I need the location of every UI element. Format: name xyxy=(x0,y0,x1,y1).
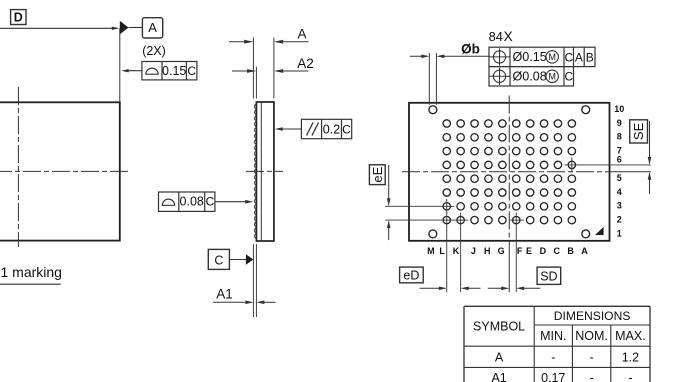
svg-text:SD: SD xyxy=(540,269,557,283)
svg-text:0.15: 0.15 xyxy=(162,64,186,78)
svg-text:C: C xyxy=(564,50,573,64)
leader arrow from 0.2 frame to body edge xyxy=(275,127,302,131)
SD label box xyxy=(537,267,561,284)
svg-text:C: C xyxy=(564,70,573,84)
svg-text:0.2: 0.2 xyxy=(323,123,340,137)
svg-text:C: C xyxy=(187,64,196,78)
svg-text:C: C xyxy=(554,246,561,256)
datum C box xyxy=(208,249,229,269)
svg-text:C: C xyxy=(206,195,215,209)
seating plane extension lines below xyxy=(253,244,256,317)
side view body outline xyxy=(256,102,274,241)
BGA vertical centerline xyxy=(508,96,510,293)
datum C leader with filled triangle xyxy=(229,254,253,265)
datum target filled triangle at A xyxy=(120,21,143,35)
svg-text:1.2: 1.2 xyxy=(622,350,639,364)
svg-text:7: 7 xyxy=(617,146,622,156)
Øb extension lines over ball M10 xyxy=(429,53,436,105)
svg-text:A1: A1 xyxy=(216,287,233,302)
svg-text:C: C xyxy=(214,253,223,267)
BGA bottom view package outline xyxy=(409,103,610,241)
crossed ball L3 with eE extension xyxy=(385,199,454,214)
svg-text:SYMBOL: SYMBOL xyxy=(473,320,525,334)
svg-text:eE: eE xyxy=(370,166,385,182)
svg-text:Øb: Øb xyxy=(461,42,480,57)
eD label box xyxy=(400,267,424,283)
table subheaders MIN NOM MAX xyxy=(540,329,646,343)
svg-text:4: 4 xyxy=(617,187,622,197)
table header DIMENSIONS xyxy=(554,309,631,323)
svg-text:9: 9 xyxy=(617,118,622,128)
84X count label xyxy=(489,29,513,44)
svg-text:A: A xyxy=(495,350,504,364)
datum D box xyxy=(11,10,26,25)
svg-text:1: 1 xyxy=(617,228,622,238)
svg-text:E: E xyxy=(526,246,532,256)
svg-text:SE: SE xyxy=(631,122,646,140)
svg-text:B: B xyxy=(567,246,574,256)
svg-text:A: A xyxy=(297,26,306,41)
crossed ball B6 with SE extension xyxy=(564,157,650,172)
position tolerance frame 0.08 M C xyxy=(489,67,574,86)
svg-text:G: G xyxy=(498,246,505,256)
label (2X) xyxy=(142,44,166,58)
svg-text:(2X): (2X) xyxy=(142,44,166,58)
crossed ball L2 with eE and eD extensions xyxy=(385,213,454,293)
position tolerance frame 0.15 M C A B xyxy=(489,47,595,66)
dimensions table grid xyxy=(464,306,650,382)
svg-text:NOM.: NOM. xyxy=(575,329,608,343)
Øb dimension arrows xyxy=(410,55,489,59)
leader arrow from 0.08 frame to ball edge xyxy=(215,200,253,204)
svg-text:K: K xyxy=(453,246,460,256)
SD dimension arrows xyxy=(488,287,541,291)
svg-text:M: M xyxy=(427,246,435,256)
parallelism tolerance frame 0.2 C xyxy=(301,119,351,138)
eE label box xyxy=(369,165,385,185)
dimension A extension lines xyxy=(253,38,274,99)
svg-text:X: X xyxy=(504,29,513,44)
side view solder ball zigzag edge xyxy=(254,104,256,240)
svg-text:-: - xyxy=(590,371,594,382)
svg-text:A: A xyxy=(575,50,583,64)
svg-text:-: - xyxy=(590,350,594,364)
svg-text:6: 6 xyxy=(617,155,622,165)
svg-text:H: H xyxy=(484,246,491,256)
pin 1 marking note xyxy=(0,264,62,284)
svg-text:F: F xyxy=(517,246,523,256)
svg-text:M: M xyxy=(548,52,556,62)
dimension A2 xyxy=(232,56,314,73)
ball A1 index corner triangle xyxy=(595,227,604,235)
svg-text:L: L xyxy=(439,246,445,256)
svg-text:MIN.: MIN. xyxy=(540,329,566,343)
Øb label xyxy=(461,42,480,57)
eE dimension line xyxy=(387,165,391,240)
crossed ball K2 with eD extension xyxy=(453,213,468,293)
svg-text:A: A xyxy=(148,20,157,35)
svg-text:84: 84 xyxy=(489,29,503,44)
svg-text:8: 8 xyxy=(617,132,622,142)
svg-text:5: 5 xyxy=(617,173,622,183)
BGA horizontal centerline xyxy=(402,171,651,173)
table row A1 xyxy=(491,371,632,382)
svg-text:D: D xyxy=(540,246,547,256)
dimension A1 xyxy=(213,287,276,305)
top view right edge extension line xyxy=(119,28,121,102)
top view vertical centerline xyxy=(17,87,19,247)
SE dimension line xyxy=(648,121,652,194)
profile tolerance frame 0.08 C xyxy=(159,192,215,211)
svg-text:-: - xyxy=(628,371,632,382)
side view horizontal centerline xyxy=(246,170,283,172)
svg-text:J: J xyxy=(471,246,476,256)
svg-text:0.17: 0.17 xyxy=(541,371,565,382)
svg-text:A: A xyxy=(581,246,588,256)
column letter labels M-A xyxy=(427,246,588,256)
zone label A box xyxy=(142,18,162,38)
svg-text:D: D xyxy=(14,11,23,25)
svg-text:Ø0.08: Ø0.08 xyxy=(513,70,547,84)
top view horizontal centerline xyxy=(0,170,130,172)
svg-text:A2: A2 xyxy=(297,56,314,71)
datum D leader line with arrowhead xyxy=(0,27,119,30)
svg-text:MAX.: MAX. xyxy=(615,329,646,343)
top view package body outline xyxy=(0,102,120,240)
svg-text:M: M xyxy=(548,72,556,82)
svg-text:A1: A1 xyxy=(491,371,506,382)
row number labels 1-10 xyxy=(614,104,624,238)
svg-text:3: 3 xyxy=(617,201,622,211)
leader arrow from 0.15 frame to edge xyxy=(121,69,142,72)
SE label box xyxy=(630,120,648,143)
profile tolerance frame 0.15 C xyxy=(142,62,197,80)
svg-text:C: C xyxy=(342,123,351,137)
svg-text:1 marking: 1 marking xyxy=(1,264,62,280)
eD dimension arrows xyxy=(420,287,481,291)
table header SYMBOL xyxy=(473,320,525,334)
svg-text:10: 10 xyxy=(614,104,624,114)
side view substrate inner line xyxy=(260,102,262,241)
dimension A xyxy=(229,26,309,43)
crossed ball F2 with SD extension xyxy=(510,213,524,293)
table row A xyxy=(495,350,639,364)
svg-text:-: - xyxy=(551,350,555,364)
dimension A2 extension line xyxy=(255,67,257,99)
svg-text:eD: eD xyxy=(403,269,419,283)
svg-text:0.08: 0.08 xyxy=(180,195,204,209)
svg-text:DIMENSIONS: DIMENSIONS xyxy=(554,309,631,323)
svg-text:2: 2 xyxy=(617,215,622,225)
svg-text:Ø0.15: Ø0.15 xyxy=(513,50,547,64)
svg-text:B: B xyxy=(586,50,594,64)
corner solder balls M10 A10 M1 A1 xyxy=(429,106,590,238)
solder ball grid 10x8 xyxy=(443,120,576,224)
